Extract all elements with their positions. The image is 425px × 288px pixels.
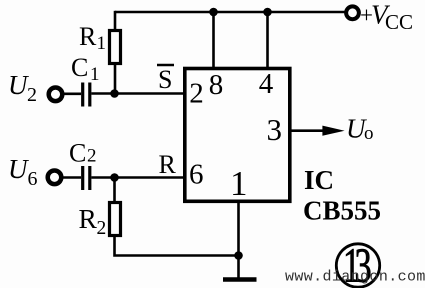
wire rail down to R1 <box>114 11 117 30</box>
wire top supply rail <box>115 11 345 14</box>
svg-text:IC: IC <box>304 165 334 195</box>
resistor R2 <box>110 203 121 236</box>
svg-text:S: S <box>158 65 172 94</box>
svg-text:www.diangon.com: www.diangon.com <box>285 269 425 286</box>
svg-text:1: 1 <box>90 64 100 85</box>
junction dot pin 8 on rail <box>209 8 218 17</box>
svg-text:C: C <box>71 53 88 82</box>
capacitor C1 <box>83 83 90 107</box>
svg-text:8: 8 <box>209 69 224 101</box>
svg-text:C: C <box>69 139 86 168</box>
wire node to R2 <box>113 178 116 203</box>
badge circled 13 <box>336 239 379 288</box>
junction dot C2/R2/pin6 <box>110 173 119 182</box>
label +Vcc <box>360 0 413 34</box>
label R2 <box>79 203 107 239</box>
svg-text:CC: CC <box>385 10 413 34</box>
svg-text:3: 3 <box>267 112 283 147</box>
ground <box>223 277 257 281</box>
arrow output <box>322 126 344 136</box>
svg-text:U: U <box>8 154 29 184</box>
svg-text:R: R <box>79 22 97 51</box>
label S-bar (set input) <box>157 65 174 94</box>
label U6 <box>8 154 38 190</box>
svg-text:2: 2 <box>87 146 97 167</box>
svg-text:o: o <box>364 123 374 144</box>
svg-text:CB555: CB555 <box>303 196 381 226</box>
wire C1 to pin 2 <box>91 92 184 95</box>
label Uo <box>346 114 374 145</box>
label R1 <box>79 22 106 54</box>
wire rail to pin 8 <box>212 12 215 70</box>
capacitor C2 <box>83 166 90 190</box>
label C1 <box>71 53 100 85</box>
wire U2 terminal to C1 <box>62 93 81 96</box>
wire U6 terminal to C2 <box>61 176 81 179</box>
junction dot ground node <box>234 251 243 260</box>
wire R1 bottom to node <box>114 64 117 94</box>
junction dot pin 4 on rail <box>263 8 272 17</box>
label IC CB555 <box>303 165 381 226</box>
wire C2 to pin 6 <box>91 176 184 179</box>
label C2 <box>69 139 97 168</box>
junction dot R1/C1/pin2 <box>110 89 119 98</box>
svg-text:2: 2 <box>97 218 107 239</box>
svg-text:R: R <box>79 203 98 234</box>
wire R2 bottom to ground node <box>115 236 239 256</box>
wire pin 3 output <box>290 129 326 132</box>
svg-text:2: 2 <box>27 84 37 106</box>
svg-text:6: 6 <box>189 158 204 190</box>
svg-text:1: 1 <box>230 164 248 203</box>
svg-text:4: 4 <box>259 68 274 100</box>
wire rail to pin 4 <box>266 12 269 70</box>
label U2 <box>8 70 37 106</box>
svg-text:1: 1 <box>97 33 107 54</box>
wire pin 1 down <box>237 200 240 279</box>
terminal U6 <box>48 171 62 185</box>
svg-text:6: 6 <box>28 168 38 190</box>
svg-text:2: 2 <box>189 78 204 110</box>
op IC U1 box CB555 <box>185 69 290 202</box>
svg-text:U: U <box>8 70 29 100</box>
terminal U2 <box>49 88 63 102</box>
resistor R1 <box>110 31 121 64</box>
terminal +Vcc <box>346 6 359 19</box>
svg-text:R: R <box>159 150 177 179</box>
